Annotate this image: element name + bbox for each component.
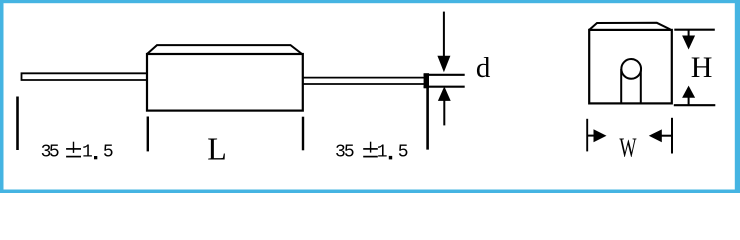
d dimension witness line top — [424, 74, 465, 76]
d dimension arrow down — [437, 12, 450, 73]
W dimension extension line right — [671, 118, 673, 154]
resistor body top lid (side view) — [147, 45, 302, 54]
H dimension arrow down — [682, 31, 695, 50]
resistor body top lid (end view) — [589, 23, 670, 30]
label L — [207, 130, 227, 166]
svg-text:1: 1 — [82, 143, 93, 163]
label d — [476, 52, 491, 84]
svg-text:5: 5 — [398, 143, 409, 163]
W dimension arrow left-pointing — [649, 129, 672, 142]
label W — [619, 133, 636, 164]
right lead end cap bar — [424, 73, 429, 88]
label 35±1.5 right — [335, 142, 409, 163]
right lead wire — [303, 78, 427, 84]
svg-text:L: L — [207, 130, 227, 166]
H dimension extension line top — [674, 29, 715, 31]
lead circle (end view) — [621, 59, 641, 79]
label H — [691, 51, 713, 84]
extension line body right — [302, 117, 304, 151]
d dimension arrow up — [438, 86, 451, 125]
svg-text:d: d — [476, 52, 491, 84]
svg-text:W: W — [619, 133, 636, 164]
svg-text:5: 5 — [49, 143, 60, 163]
d dimension witness line bottom — [424, 86, 465, 88]
svg-text:H: H — [691, 51, 713, 84]
H dimension extension line bottom — [674, 104, 716, 106]
resistor body (side view) — [147, 54, 303, 111]
label 35±1.5 left — [41, 142, 114, 163]
W dimension arrow right-pointing — [588, 129, 607, 142]
extension line body left — [147, 117, 149, 152]
extension line right lead end — [426, 74, 429, 150]
W dimension extension line left — [586, 119, 588, 152]
H dimension arrow up — [682, 86, 695, 105]
lead stem (end view) — [621, 69, 641, 103]
left lead wire — [22, 73, 148, 80]
svg-text:5: 5 — [344, 143, 355, 163]
svg-text:1: 1 — [377, 143, 388, 163]
resistor body (end view) — [589, 30, 672, 104]
extension line left lead end — [16, 97, 19, 151]
svg-text:5: 5 — [103, 143, 114, 163]
